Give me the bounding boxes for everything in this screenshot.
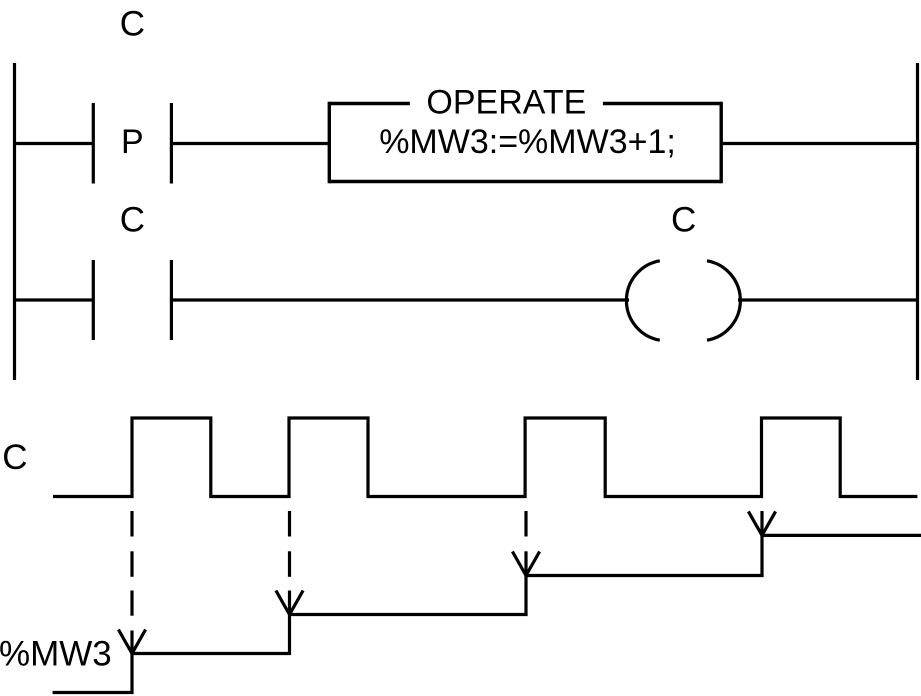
dashed arrow 1 <box>118 511 145 654</box>
dashed arrow 3 <box>512 511 539 576</box>
svg-text:%MW3: %MW3 <box>0 635 112 674</box>
wire rung2 rail to contact <box>15 298 94 301</box>
dashed arrow 2 <box>276 511 303 615</box>
waveform C <box>53 418 917 497</box>
right power rail <box>916 63 919 380</box>
svg-text:C: C <box>2 438 27 477</box>
wire rung1 rail to contact <box>15 142 94 145</box>
svg-text:C: C <box>120 5 145 44</box>
wire rung1 block to right rail <box>721 142 917 145</box>
svg-text:C: C <box>120 200 145 239</box>
operate block bottom border <box>329 180 721 183</box>
svg-text:C: C <box>671 200 696 239</box>
operate block right border <box>720 102 723 183</box>
left power rail <box>13 63 16 380</box>
operate block top border right segment <box>603 102 721 105</box>
coil C right arc <box>707 261 740 340</box>
coil C left arc <box>626 261 659 340</box>
svg-text:OPERATE: OPERATE <box>426 84 586 122</box>
svg-text:P: P <box>121 123 144 161</box>
svg-text:%MW3:=%MW3+1;: %MW3:=%MW3+1; <box>379 123 676 161</box>
operate block left border <box>328 102 331 183</box>
dashed arrow 4 <box>748 511 775 535</box>
wire rung2 coil to right rail <box>738 298 918 301</box>
wire rung1 contact to operate block <box>171 142 329 145</box>
operate block top border left segment <box>329 102 410 105</box>
contact C right bar <box>170 260 173 340</box>
contact P left bar <box>92 103 95 184</box>
waveform %MW3 staircase <box>53 535 921 692</box>
contact P right bar <box>170 103 173 184</box>
wire rung2 contact to coil <box>171 298 629 301</box>
contact C left bar <box>92 260 95 340</box>
